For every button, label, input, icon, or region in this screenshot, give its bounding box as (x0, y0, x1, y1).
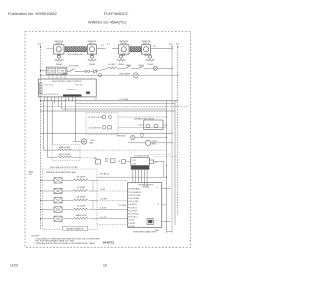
wire vertical drops mid (44, 101, 167, 157)
wire mid horizontal (41, 132, 173, 134)
svg-text:2-4 YL MDL: 2-4 YL MDL (130, 201, 139, 203)
svg-text:Publication No. 5995510842: Publication No. 5995510842 (8, 11, 57, 16)
svg-text:2-6 BK L1: 2-6 BK L1 (130, 207, 138, 209)
electronic oven control U1 (38, 79, 96, 97)
svg-text:3-2 OR L2: 3-2 OR L2 (130, 217, 138, 219)
svg-text:2-1: 2-1 (101, 45, 104, 47)
svg-text:344(TC): 344(TC) (103, 240, 114, 244)
svg-text:2-2 RD CONV: 2-2 RD CONV (130, 195, 142, 197)
surface unit row 3 (40, 196, 128, 203)
svg-text:OVEN LAMP: OVEN LAMP (119, 72, 131, 75)
svg-text:3-5 BK: 3-5 BK (130, 226, 136, 228)
wire L2 bus (171, 47, 173, 233)
ground resistor G1 under SW1 (55, 54, 64, 66)
latch aux box (149, 160, 164, 177)
svg-text:2-3: 2-3 (107, 44, 110, 46)
hidden bake elements (dashed box) (52, 145, 96, 160)
selector switch block S1 (46, 67, 67, 79)
oven fan motor M2 (128, 140, 172, 145)
svg-text:DOOR LOCK SW: DOOR LOCK SW (89, 117, 103, 119)
infinite switch SW2 (LF) (87, 41, 97, 54)
wire right bus A (166, 101, 168, 233)
wire U2 left entry labels (119, 205, 127, 207)
svg-text:2. APPLIANCE MUST BE ELECTRICA: 2. APPLIANCE MUST BE ELECTRICALLY GROUND… (35, 242, 96, 245)
bake switch S3 (117, 64, 139, 69)
svg-text:1800W: 1800W (118, 64, 124, 66)
svg-text:OVEN IND: OVEN IND (116, 135, 126, 137)
svg-text:2-12 OR: 2-12 OR (100, 217, 107, 219)
wire upper terminal row (97, 174, 167, 178)
svg-text:GND: GND (155, 230, 160, 232)
svg-text:C NC: C NC (132, 163, 137, 165)
wire door lock to bus (118, 117, 167, 127)
svg-text:LOCK MOTOR SW: LOCK MOTOR SW (134, 155, 150, 157)
oven lamp I2 (133, 73, 178, 78)
svg-text:RADIANT MAINTOP: RADIANT MAINTOP (66, 227, 84, 230)
node L1 (38, 42, 41, 48)
svg-text:N: N (177, 42, 179, 46)
node L2 (170, 42, 173, 48)
wire U2 right stub 1 (157, 187, 172, 189)
svg-text:2-6: 2-6 (154, 162, 157, 164)
footer page number (103, 264, 107, 268)
switch terminal tabs (58, 54, 148, 55)
svg-text:L2: L2 (170, 42, 173, 46)
svg-text:P3 1 2 3 4: P3 1 2 3 4 (45, 85, 53, 87)
wire row links (92, 180, 94, 209)
surface indicator lights box (134, 117, 167, 129)
infinite switch SW3 (RR) (119, 41, 130, 54)
footer date (10, 264, 18, 268)
surface unit row 2 (40, 187, 128, 194)
svg-text:P24 BK-16: P24 BK-16 (100, 174, 109, 176)
surface element RF (hatched) (65, 47, 87, 56)
wire color legend (50, 167, 78, 169)
lock motor switch box (125, 155, 149, 165)
wire EOC terminal drops (44, 97, 75, 101)
svg-text:C NO: C NO (132, 160, 137, 162)
wire labels on row extensions (100, 189, 107, 219)
svg-text:2-3 OR FAN: 2-3 OR FAN (130, 197, 140, 200)
svg-text:2-1 WH BROIL: 2-1 WH BROIL (130, 192, 141, 194)
wire U2 right stub 3 (157, 220, 172, 222)
wire L1 to SW1 (46, 48, 54, 50)
diagram number (103, 240, 114, 244)
wire lower harness (40, 110, 175, 112)
indicator lamp I1 (153, 66, 172, 70)
U2 bottom label (133, 230, 157, 233)
svg-text:NO.8 SURF UNIT: NO.8 SURF UNIT (68, 54, 84, 56)
wire L1 to S1 (40, 70, 46, 71)
svg-text:19: 19 (103, 264, 107, 268)
wire dashed jumper (97, 224, 128, 226)
svg-text:LR 1200W: LR 1200W (77, 206, 86, 208)
ground resistor G3 under SW3 (117, 54, 126, 66)
svg-text:11/02: 11/02 (10, 264, 18, 268)
maintop bottom label (63, 226, 88, 230)
junction dots (166, 48, 173, 178)
svg-text:2-7 WH N: 2-7 WH N (130, 210, 138, 212)
svg-text:BOARD: BOARD (143, 186, 150, 189)
svg-text:LF 1500W: LF 1500W (77, 187, 86, 189)
door lock switch assembly (dashed box) (86, 113, 118, 135)
svg-text:L1: L1 (157, 187, 159, 189)
svg-text:MDL: MDL (94, 158, 98, 160)
surface unit row 1 (40, 176, 128, 183)
svg-text:RF 2400W: RF 2400W (77, 176, 86, 178)
svg-text:WIRING SC-459A(TC): WIRING SC-459A(TC) (88, 21, 127, 25)
ground resistor G4 under SW4 (146, 54, 155, 66)
infinite switch SW4 (LR) (142, 41, 151, 54)
wire latch dashed links (150, 154, 178, 156)
oven light resistor R5 (97, 64, 117, 71)
wire SW2 to SW3 (97, 44, 119, 49)
svg-text:FLEF365DCC: FLEF365DCC (104, 11, 129, 16)
broil switch S4 (139, 65, 154, 69)
svg-text:TOP: TOP (29, 174, 33, 176)
svg-text:BROIL: BROIL (139, 65, 145, 67)
svg-text:1200W: 1200W (147, 64, 153, 66)
svg-text:2400W: 2400W (56, 64, 62, 66)
svg-text:NOTES:: NOTES: (32, 235, 41, 237)
surface element LR (hatched) (130, 47, 141, 52)
wire relay drops (133, 170, 147, 186)
svg-text:LT SW: LT SW (59, 70, 65, 72)
infinite switch SW1 (RF) (54, 41, 65, 54)
svg-text:ELECTRONIC OVEN CONTROL: ELECTRONIC OVEN CONTROL (52, 81, 82, 83)
surface unit row 4 (40, 206, 128, 213)
svg-text:3-1 RD DLB: 3-1 RD DLB (130, 214, 140, 216)
header wiring title (88, 21, 127, 25)
svg-text:LF: LF (118, 161, 121, 163)
wire harness bundle (40, 99, 178, 104)
node N (177, 42, 179, 48)
wire N bus (177, 47, 179, 215)
svg-text:MDL: MDL (105, 158, 109, 160)
header model number (104, 11, 129, 16)
maintop left label (29, 171, 34, 177)
svg-text:TIMER: TIMER (62, 73, 68, 75)
header publication text (8, 11, 57, 16)
door switch S2 (67, 65, 79, 71)
svg-text:DOOR SW: DOOR SW (69, 65, 78, 67)
svg-text:1500W: 1500W (89, 64, 95, 66)
wire L1 bus (40, 47, 42, 229)
svg-text:2-11 RD: 2-11 RD (100, 208, 107, 210)
svg-text:HIGH SPEED BAKE OVEN: HIGH SPEED BAKE OVEN (133, 230, 157, 233)
svg-text:2-9 BK: 2-9 BK (100, 189, 106, 191)
svg-text:LOCK MOTOR: LOCK MOTOR (89, 128, 102, 130)
svg-text:2-5 BR LT: 2-5 BR LT (130, 204, 138, 206)
svg-text:P2 CONN: P2 CONN (119, 205, 127, 207)
ground hook (155, 230, 172, 232)
U2 relay K1 (dark) (147, 219, 154, 225)
svg-text:P1 CONN: P1 CONN (120, 99, 129, 101)
outer dashed border (25, 32, 191, 248)
svg-text:1 2 3 4 5 6 7 8 9 10: 1 2 3 4 5 6 7 8 9 10 11 12 (39, 94, 58, 96)
svg-text:N: N (158, 203, 160, 205)
wire dashed chassis line (41, 106, 190, 108)
svg-text:P5 1 2 3: P5 1 2 3 (76, 85, 83, 87)
notes block (32, 235, 101, 245)
svg-text:L1: L1 (38, 42, 41, 46)
wire oven lamp row (40, 72, 134, 76)
U2 terminal list (128, 188, 142, 228)
svg-text:HI-LIMIT: HI-LIMIT (108, 64, 116, 66)
wire U2 right stub 2 (158, 203, 167, 205)
ground resistor G2 under SW2 (88, 54, 97, 66)
wire SW4 to L2 (151, 46, 172, 48)
connector P4 (79, 70, 90, 72)
svg-text:2-10 WH: 2-10 WH (100, 199, 107, 201)
wire right bus B (174, 101, 176, 225)
svg-text:2-8 BK BAKE: 2-8 BK BAKE (130, 188, 141, 191)
convection fan motor M1 (73, 139, 95, 145)
maintop dashed enclosure (43, 169, 98, 230)
svg-text:RR 1800W: RR 1800W (77, 196, 86, 198)
surface unit row 5 (40, 214, 128, 222)
svg-text:SW: SW (105, 161, 108, 163)
svg-text:3-4 BR: 3-4 BR (130, 223, 136, 225)
svg-text:2-4: 2-4 (153, 46, 156, 48)
svg-text:1-BK 2-WH 3-RD 4-OR 5-YL: 1-BK 2-WH 3-RD 4-OR 5-YL 6-BR (50, 167, 78, 169)
svg-text:L2: L2 (157, 220, 159, 222)
svg-text:2-2: 2-2 (94, 99, 97, 101)
latch components MDL (80, 150, 167, 164)
svg-text:SURFACE UNITS AND SWITCHES: SURFACE UNITS AND SWITCHES (46, 171, 77, 174)
relay board header (dark) (131, 166, 150, 170)
svg-text:WARM 100W: WARM 100W (76, 214, 87, 217)
svg-text:BAKE: BAKE (126, 64, 132, 67)
svg-text:3-3 YL: 3-3 YL (130, 220, 135, 222)
oven indicator lamp I3 (116, 134, 166, 140)
svg-text:OVEN: OVEN (49, 70, 55, 72)
oven relay control board U2 (128, 183, 162, 228)
diode D1 (90, 70, 97, 73)
